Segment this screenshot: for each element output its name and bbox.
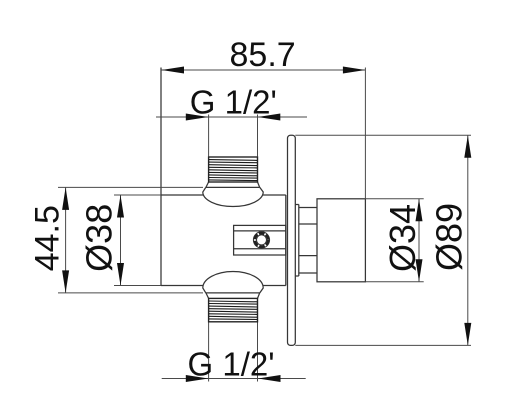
dim G 1/2 top lines bbox=[156, 115, 307, 157]
svg-text:85.7: 85.7 bbox=[230, 36, 296, 74]
svg-text:G 1/2': G 1/2' bbox=[188, 345, 275, 382]
knurled screw head bbox=[253, 232, 269, 248]
svg-text:Ø89: Ø89 bbox=[429, 203, 470, 271]
bottom outlet bell bbox=[203, 272, 263, 299]
arrow Ø38 top bbox=[117, 195, 124, 218]
arrow 85.7 right bbox=[343, 67, 366, 74]
bottom thread G 1/2 bbox=[209, 298, 258, 321]
top inlet bell bbox=[203, 182, 263, 207]
control knob cylinder Ø34 bbox=[317, 199, 365, 282]
dim Ø89 lines bbox=[295, 135, 471, 345]
valve stem with grooves bbox=[299, 208, 317, 274]
arrowheads bbox=[62, 67, 471, 383]
arrow 85.7 left bbox=[162, 67, 185, 74]
arrow Ø38 bottom bbox=[117, 263, 124, 286]
svg-text:44.5: 44.5 bbox=[29, 205, 67, 271]
arrow G bottom right bbox=[258, 375, 281, 382]
arrow 44.5 bottom bbox=[62, 270, 69, 293]
arrow G top left bbox=[186, 114, 209, 121]
arrow Ø89 top bbox=[464, 135, 471, 157]
dim Ø34 lines bbox=[365, 199, 423, 282]
svg-text:G 1/2': G 1/2' bbox=[190, 84, 277, 121]
arrow Ø89 bottom bbox=[464, 323, 471, 345]
arrow G top right bbox=[258, 114, 281, 121]
svg-text:Ø38: Ø38 bbox=[79, 204, 120, 272]
valve stem collar bbox=[295, 205, 299, 277]
arrow Ø34 bottom bbox=[416, 259, 423, 282]
valve body (cylinder Ø38 side view) bbox=[161, 68, 286, 286]
arrow 44.5 top bbox=[62, 187, 69, 210]
arrow G bottom left bbox=[186, 375, 209, 382]
dim 85.7 lines bbox=[162, 68, 366, 199]
top thread G 1/2 bbox=[209, 157, 258, 182]
dim G 1/2 bottom lines bbox=[162, 323, 306, 382]
svg-text:Ø34: Ø34 bbox=[382, 204, 423, 272]
set screw box on body bbox=[234, 225, 286, 255]
dim Ø38 lines bbox=[114, 195, 161, 286]
dim 44.5 lines bbox=[58, 187, 203, 293]
arrow Ø34 top bbox=[416, 199, 423, 222]
wall flange plate Ø89 bbox=[288, 135, 296, 345]
